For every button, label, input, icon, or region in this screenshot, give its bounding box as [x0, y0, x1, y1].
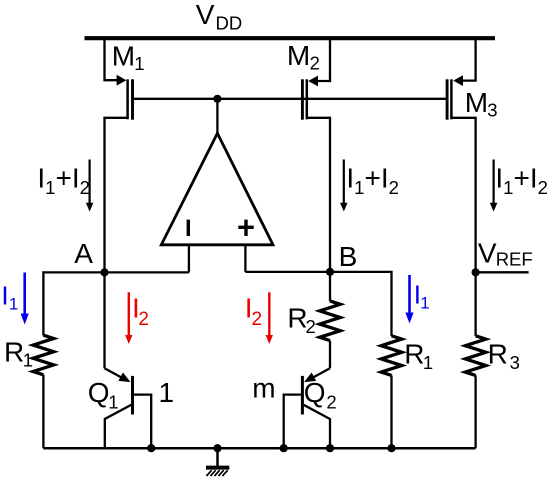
wire Q2 base to ground rail [284, 395, 301, 449]
svg-text:V: V [478, 238, 497, 269]
wire Q2 emitter column from R2 [329, 341, 331, 369]
transistor M1 source arrow (PMOS) [117, 75, 127, 86]
resistor R2 [320, 301, 341, 341]
svg-text:m: m [252, 373, 275, 404]
wire node B row [245, 271, 391, 273]
wire node B down to R2 [329, 272, 331, 301]
resistor R1 (right) [381, 336, 402, 376]
transistor Q1 base bar [131, 376, 134, 415]
junction dot Q2 collector at rail [326, 444, 334, 452]
node A junction dot [100, 268, 108, 276]
svg-text:2: 2 [252, 309, 263, 330]
svg-text:Q: Q [88, 377, 110, 408]
svg-text:1: 1 [159, 377, 175, 408]
transistor Q2 emitter diagonal [307, 368, 330, 381]
svg-text:Q: Q [304, 377, 326, 408]
current arrow I1+I2 right [493, 160, 495, 205]
wire M3 drain to VREF node [451, 118, 475, 272]
transistor M1 gate bar [131, 79, 134, 119]
svg-text:1: 1 [423, 352, 433, 373]
svg-text:M: M [465, 87, 488, 118]
transistor M1 channel bar [126, 79, 129, 119]
junction dot R1 right at rail [387, 444, 395, 452]
node B junction dot [326, 268, 334, 276]
junction dot Q1 base at rail [147, 444, 155, 452]
op-amp inverting input mark [187, 220, 190, 236]
op-amp U1 triangle [161, 133, 273, 245]
wire node A row [43, 271, 189, 273]
svg-text:DD: DD [216, 13, 243, 34]
svg-text:I1+I2: I1+I2 [495, 163, 548, 198]
current arrow I1+I2 middle [343, 160, 345, 205]
resistor R1 (left) [33, 335, 54, 375]
svg-text:2: 2 [326, 392, 336, 413]
ground symbol bar [206, 466, 229, 470]
wire op-amp inverting input lead [188, 244, 190, 272]
transistor M2 gate bar [301, 79, 304, 119]
wire M1 source from VDD [105, 37, 119, 81]
current arrow I1 blue left [23, 273, 26, 315]
transistor M2 channel bar [306, 79, 309, 119]
transistor M3 source arrow (PMOS) [453, 75, 463, 86]
svg-text:3: 3 [487, 99, 497, 120]
svg-text:I1+I2: I1+I2 [37, 163, 90, 198]
wire Q1 base to ground rail [134, 395, 151, 449]
svg-text:2: 2 [138, 309, 149, 330]
svg-text:R: R [4, 336, 24, 367]
svg-text:I1+I2: I1+I2 [346, 163, 399, 198]
wire VREF down to R3 [474, 272, 476, 336]
transistor Q2 collector to ground rail [304, 405, 330, 448]
ground symbol hatching [206, 470, 227, 476]
ground rail wire [43, 447, 475, 450]
transistor Q1 collector to ground rail [105, 405, 132, 448]
svg-text:M: M [287, 40, 310, 71]
wire gate bus M1-M2-M3 [134, 98, 447, 100]
current arrow I2 red left [128, 292, 130, 336]
transistor M3 gate bar [446, 79, 449, 119]
svg-text:1: 1 [108, 392, 118, 413]
current arrow I1 blue right [408, 275, 411, 314]
transistor M2 source arrow (PMOS) [308, 76, 318, 87]
svg-text:2: 2 [310, 53, 320, 74]
wire M2 source from VDD [317, 37, 331, 82]
wire node A down to R1 left [42, 271, 44, 335]
VDD power rail [85, 36, 496, 40]
wire M3 source from VDD [462, 37, 476, 81]
wire M1 drain to node A [105, 118, 128, 273]
wire op-amp non-inverting input lead [244, 244, 246, 272]
svg-text:I: I [1, 281, 8, 311]
svg-text:REF: REF [496, 248, 533, 269]
wire node B right branch down to R1 right [390, 272, 391, 336]
transistor Q1 emitter arrow (PNP) [118, 373, 130, 383]
wire Q1 emitter column from node A [103, 272, 105, 368]
wire R1 left to ground rail [42, 375, 44, 448]
svg-text:V: V [196, 0, 215, 30]
svg-text:M: M [112, 40, 135, 71]
wire op-amp output stem [216, 99, 218, 135]
wire VREF output [476, 271, 529, 273]
ground symbol stub [216, 448, 219, 466]
current arrow I2 red right [268, 292, 270, 336]
svg-text:1: 1 [9, 295, 18, 314]
junction dot Q2 base at rail [280, 444, 288, 452]
wire M2 drain to node B [307, 118, 330, 272]
transistor Q2 base bar [301, 376, 304, 415]
svg-text:B: B [339, 241, 358, 272]
node VREF junction dot [472, 268, 480, 276]
op-amp non-inverting input mark [238, 226, 253, 229]
transistor Q2 emitter arrow (PNP) [304, 373, 316, 383]
svg-text:A: A [74, 238, 93, 269]
resistor R3 [465, 336, 486, 376]
svg-text:R: R [404, 339, 424, 370]
junction dot ground stub [213, 444, 221, 452]
transistor M3 channel bar [450, 79, 453, 119]
svg-text:1: 1 [420, 294, 429, 313]
transistor Q1 emitter diagonal [105, 368, 128, 381]
wire R3 to ground rail [474, 375, 476, 448]
junction dot gate bus to op-amp [213, 95, 221, 103]
svg-text:1: 1 [134, 53, 144, 74]
svg-text:R: R [488, 339, 508, 370]
wire R1 right to ground rail [390, 375, 392, 448]
svg-text:2: 2 [306, 316, 316, 337]
svg-text:3: 3 [510, 352, 520, 373]
svg-text:1: 1 [23, 350, 33, 371]
current arrow I1+I2 left [88, 160, 90, 205]
